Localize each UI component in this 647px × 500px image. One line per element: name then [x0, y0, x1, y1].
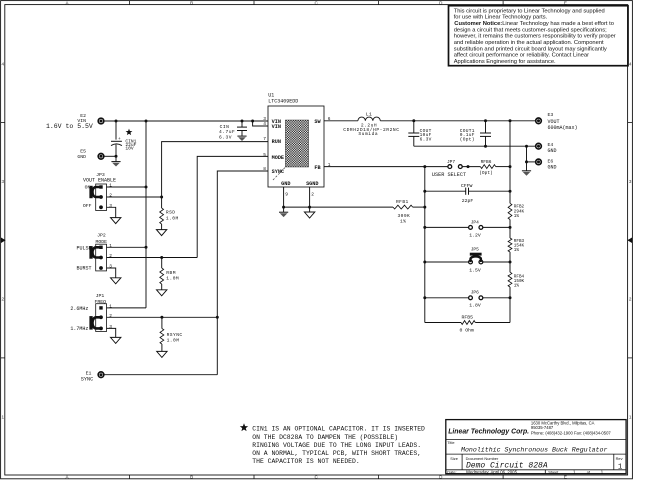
svg-text:MODE: MODE: [272, 155, 284, 161]
border row ticks: [1, 122, 5, 124]
node JP3 pin1 VIN: [145, 186, 148, 189]
wire SW pin6 to L1: [324, 120, 358, 122]
ground below pin2 SGND (signal): [309, 207, 311, 212]
svg-text:Size: Size: [450, 456, 458, 461]
wire FB pin1 to divider: [324, 166, 448, 168]
svg-text:Rev: Rev: [616, 456, 623, 461]
resistor RFB1 309K: [393, 205, 413, 209]
svg-text:E4: E4: [548, 142, 554, 148]
wire MODE pin5 to JP2 pin2: [197, 156, 268, 257]
svg-text:BURST: BURST: [76, 265, 91, 271]
svg-text:RINGING VOLTAGE DUE TO THE LON: RINGING VOLTAGE DUE TO THE LONG INPUT LE…: [252, 442, 421, 449]
svg-text:0 Ohm: 0 Ohm: [460, 328, 475, 334]
svg-text:3: 3: [109, 203, 112, 209]
resistor RFB5 0 Ohm: [425, 322, 461, 324]
svg-text:1: 1: [109, 243, 112, 249]
proprietary notice box: [449, 6, 629, 66]
node FB-left vertical: [423, 165, 426, 168]
svg-text:3: 3: [109, 324, 112, 330]
wire U1 pin2 SGND down: [309, 187, 311, 207]
wire E1 to SYNC vertical: [104, 374, 218, 376]
wire SYNC pin8 vertical: [217, 171, 268, 375]
svg-text:2: 2: [109, 193, 112, 199]
svg-text:for use with Linear Technology: for use with Linear Technology parts.: [454, 15, 548, 21]
node RSYNC top: [160, 316, 163, 319]
wire JP3 pin3 to ground: [107, 207, 116, 217]
svg-text:E: E: [564, 0, 567, 5]
ground below CIN (power): [237, 135, 246, 137]
node JP4 right: [509, 226, 512, 229]
ground below RBM (signal): [157, 290, 167, 296]
svg-text:1.6V to 5.5V: 1.6V to 5.5V: [46, 123, 93, 130]
svg-text:JP1: JP1: [96, 293, 105, 299]
node VOUT-COUT: [412, 119, 415, 122]
node E6 branch: [525, 145, 528, 148]
svg-text:1.5V: 1.5V: [469, 267, 481, 273]
wire to E6 terminal: [527, 161, 536, 163]
svg-text:3: 3: [263, 116, 266, 122]
svg-text:RSD: RSD: [166, 209, 176, 215]
svg-text:RBM: RBM: [166, 270, 176, 276]
terminal E2 VIN: [98, 118, 104, 124]
svg-text:RFB5: RFB5: [462, 314, 474, 320]
wire JP3 pin2 to RUN/RSD: [107, 196, 162, 198]
svg-text:GND: GND: [77, 154, 86, 160]
svg-text:3: 3: [109, 264, 112, 270]
node GND pin9: [282, 206, 285, 209]
title block frame: [446, 420, 626, 474]
svg-text:SYNC: SYNC: [81, 377, 93, 383]
svg-text:GND: GND: [281, 181, 290, 187]
svg-text:E3: E3: [548, 112, 554, 118]
svg-text:1: 1: [109, 183, 112, 189]
svg-text:Applications Engineering for a: Applications Engineering for assistance.: [454, 59, 556, 65]
svg-text:RFB6: RFB6: [481, 159, 492, 165]
jumper JP1 FREQ: [96, 304, 107, 332]
svg-text:E1: E1: [86, 370, 92, 376]
svg-text:(Opt): (Opt): [460, 137, 475, 143]
svg-text:VIN: VIN: [272, 124, 281, 130]
capacitor COUT1 0.1uF (Opt): [485, 121, 487, 133]
svg-text:USER SELECT: USER SELECT: [432, 172, 466, 178]
svg-text:RUN: RUN: [272, 139, 281, 145]
wire JP1 pin3 to ground: [107, 328, 116, 337]
svg-text:JP2: JP2: [97, 232, 106, 238]
wire divider right vertical top: [509, 121, 511, 204]
svg-text:JP4: JP4: [471, 219, 479, 225]
svg-text:JP7: JP7: [447, 159, 455, 165]
svg-text:VOUT: VOUT: [548, 119, 560, 125]
svg-text:6.3V: 6.3V: [420, 137, 432, 143]
svg-text:22pF: 22pF: [462, 198, 474, 204]
svg-text:PULSE: PULSE: [76, 245, 91, 251]
U1 exposed pad dashed lead: [273, 168, 286, 181]
svg-text:1: 1: [629, 415, 632, 420]
svg-text:1: 1: [2, 415, 5, 420]
svg-text:ON: ON: [85, 185, 91, 191]
svg-text:E5: E5: [80, 149, 86, 155]
wire VIN vertical to JP1 pin1: [145, 121, 147, 308]
svg-text:VOUT ENABLE: VOUT ENABLE: [83, 177, 116, 183]
wire VIN rail E2 to U1 pin3: [104, 120, 268, 122]
border column ticks: [128, 1, 130, 5]
svg-text:THE CAPACITOR IS NOT NEEDED.: THE CAPACITOR IS NOT NEEDED.: [252, 458, 359, 465]
svg-text:Document Number: Document Number: [466, 456, 499, 461]
svg-text:4: 4: [2, 61, 5, 66]
svg-text:B: B: [190, 475, 193, 480]
svg-text:SGND: SGND: [306, 181, 318, 187]
svg-text:2: 2: [629, 297, 632, 302]
ground below E6 (power): [526, 162, 528, 171]
ground below RSD (signal): [156, 230, 166, 236]
svg-text:SW: SW: [314, 119, 321, 125]
jumper JP3 VOUT ENABLE: [96, 184, 107, 211]
svg-text:1.8V: 1.8V: [469, 302, 481, 308]
node VIN-pin4 branch: [251, 120, 254, 123]
svg-text:B: B: [190, 0, 193, 5]
jumper JP6 1.8V: [425, 297, 469, 299]
terminal E4 GND: [536, 143, 542, 149]
svg-text:and reliable operation in the: and reliable operation in the actual app…: [454, 40, 604, 46]
terminal E6 GND: [536, 159, 542, 165]
svg-text:1.0M: 1.0M: [166, 215, 179, 221]
jumper JP2 MODE: [96, 244, 107, 271]
wire output ground rail: [414, 145, 536, 147]
svg-text:Date:: Date:: [447, 469, 456, 474]
op-amp U1 LTC3409EDD body: [268, 106, 324, 187]
node VIN-CIN: [241, 120, 244, 123]
ground below CIN1 (power): [115, 156, 117, 161]
jumper JP7 USER SELECT: [448, 165, 452, 169]
svg-text:E6: E6: [548, 158, 554, 164]
svg-text:Monolithic Synchronous Buck Re: Monolithic Synchronous Buck Regulator: [461, 446, 607, 453]
svg-text:ON A NORMAL, TYPICAL PCB, WITH: ON A NORMAL, TYPICAL PCB, WITH SHORT TRA…: [252, 450, 421, 457]
svg-text:10V: 10V: [125, 146, 134, 152]
jumper JP4 1.2V: [425, 226, 469, 228]
resistor RFB2 294K 1%: [508, 203, 512, 219]
node CFFW left: [423, 190, 426, 193]
node JP5 right: [509, 261, 512, 264]
svg-text:2.6MHz: 2.6MHz: [70, 306, 88, 312]
inductor L1 2.2uH: [358, 117, 380, 121]
svg-text:GND: GND: [548, 148, 557, 154]
node MODE-RBM: [160, 256, 163, 259]
svg-text:Phone: (408)432-1900 Fax: (408: Phone: (408)432-1900 Fax: (408)434-0507: [531, 430, 612, 435]
wire JP2 pin3 to ground: [107, 268, 116, 278]
wire E6 branch vertical: [526, 146, 528, 162]
wire JP1 pin2 to SYNC: [107, 316, 218, 318]
wire SGND rail to FB divider: [284, 206, 393, 208]
svg-text:RSYNC: RSYNC: [167, 332, 183, 338]
node JP6 right: [509, 296, 512, 299]
svg-text:Wednesday, April 06, 2005: Wednesday, April 06, 2005: [466, 469, 518, 474]
ground below pin9 (power): [283, 207, 285, 212]
svg-text:Linear Technology Corp.: Linear Technology Corp.: [448, 428, 529, 435]
jumper JP5 1.5V with shunt: [425, 261, 469, 263]
svg-text:L1: L1: [366, 111, 373, 117]
wire U1 pin9 GND down: [283, 187, 285, 207]
svg-text:6.3V: 6.3V: [219, 134, 232, 140]
svg-text:1: 1: [109, 304, 112, 310]
node CIN1-E5: [115, 155, 118, 158]
resistor RSYNC 1.0M: [161, 317, 163, 328]
star mark at CIN1: [126, 129, 133, 136]
node SGND pin2: [308, 206, 311, 209]
node JP7-RFB6: [467, 165, 470, 168]
svg-text:GND: GND: [548, 165, 557, 171]
svg-text:4: 4: [629, 61, 632, 66]
svg-text:(Opt): (Opt): [479, 170, 493, 176]
svg-text:CIN1 IS AN OPTIONAL CAPACITOR.: CIN1 IS AN OPTIONAL CAPACITOR. IT IS INS…: [252, 426, 425, 433]
svg-text:SYNC: SYNC: [272, 169, 284, 175]
svg-text:FB: FB: [314, 165, 320, 171]
wire RUN pin7 to JP3 pin2: [162, 142, 268, 197]
svg-text:4: 4: [263, 121, 266, 127]
svg-text:E: E: [564, 475, 567, 480]
svg-text:2: 2: [109, 313, 112, 319]
svg-text:9: 9: [285, 192, 288, 198]
node RFB1 joins FB vertical: [423, 206, 426, 209]
svg-text:affect circuit performance or: affect circuit performance or reliabilit…: [454, 53, 589, 59]
svg-text:600mA(max): 600mA(max): [548, 125, 578, 131]
capacitor CFFW 22pF: [425, 190, 466, 192]
node VIN-vertical: [145, 120, 148, 123]
node E6: [525, 160, 528, 163]
wire U1 pin4 branch: [253, 121, 268, 126]
terminal E5 GND: [98, 154, 104, 160]
svg-text:FREQ: FREQ: [95, 299, 107, 305]
svg-text:3: 3: [2, 179, 5, 184]
svg-text:JP5: JP5: [471, 246, 479, 252]
node RUN-RSD: [160, 196, 163, 199]
svg-text:substitution and printed circu: substitution and printed circuit board l…: [454, 46, 607, 52]
svg-text:4.7uF: 4.7uF: [219, 129, 235, 135]
svg-text:1%: 1%: [514, 283, 520, 288]
svg-text:2: 2: [311, 192, 314, 198]
svg-text:1.0M: 1.0M: [166, 276, 179, 282]
terminal E3 VOUT: [536, 118, 542, 124]
svg-text:Customer Notice:Linear Technol: Customer Notice:Linear Technology has ma…: [454, 21, 614, 27]
wire E5 to CIN1: [104, 155, 116, 157]
resistor RFB6 (Opt): [480, 165, 495, 169]
node VOUT-divider: [509, 119, 512, 122]
svg-text:CFFW: CFFW: [461, 183, 473, 189]
svg-text:1: 1: [618, 463, 623, 471]
svg-text:Title: Title: [447, 440, 454, 445]
node VOUT-COUT1: [484, 119, 487, 122]
svg-text:however, it remains the custom: however, it remains the customers respon…: [454, 34, 616, 40]
terminal E1 SYNC: [98, 372, 104, 378]
JP1 shunt on pins 2-3: [92, 317, 101, 328]
svg-text:LTC3409EDD: LTC3409EDD: [268, 98, 298, 104]
svg-text:OFF: OFF: [83, 203, 92, 209]
svg-text:Sheet: Sheet: [548, 469, 559, 474]
node CFFW right: [509, 190, 512, 193]
svg-text:+: +: [118, 137, 121, 142]
svg-text:This circuit is proprietary to: This circuit is proprietary to Linear Te…: [454, 8, 605, 14]
wire JP1 pin1 to VIN vertical: [107, 307, 147, 309]
node VIN-CIN1: [115, 120, 118, 123]
resistor RBM 1.0M: [161, 258, 163, 269]
border center arrows: [1, 237, 6, 243]
U1 exposed pad hatch: [285, 120, 308, 167]
resistor RFB4 150K 1%: [508, 272, 512, 287]
node JP2 pin1 VIN: [145, 246, 148, 249]
node JP4 left: [423, 226, 426, 229]
JP2 shunt on pins 1-2: [92, 247, 101, 257]
wire L1 to E3 VOUT: [380, 120, 536, 122]
svg-text:JP6: JP6: [471, 289, 479, 295]
node JP5 left: [423, 261, 426, 264]
svg-text:1.0M: 1.0M: [167, 338, 180, 344]
svg-text:CIN: CIN: [220, 124, 230, 130]
svg-text:RFB1: RFB1: [396, 199, 409, 205]
resistor RSD 1.0M: [161, 197, 163, 208]
svg-text:ON THE DC828A TO DAMPEN THE (: ON THE DC828A TO DAMPEN THE (POSSIBLE): [252, 434, 398, 441]
note star symbol: [240, 423, 248, 431]
wire FB left vertical: [424, 167, 426, 323]
svg-text:2: 2: [109, 253, 112, 259]
capacitor COUT 10uF 6.3V: [413, 121, 415, 133]
resistor RFB3 154K 1%: [508, 238, 512, 252]
node SYNC-JP1: [216, 316, 219, 319]
node RFB6-divider: [509, 165, 512, 168]
svg-text:1%: 1%: [514, 214, 520, 219]
wire JP2 pin2 to MODE: [107, 257, 198, 259]
svg-text:3: 3: [629, 179, 632, 184]
svg-text:design a circuit that meets cu: design a circuit that meets customer-sup…: [454, 27, 607, 33]
svg-text:1.2V: 1.2V: [469, 232, 481, 238]
JP3 shunt on pins 1-2: [92, 187, 101, 197]
svg-text:1%: 1%: [400, 218, 406, 224]
capacitor CIN 4.7uF 6.3V: [241, 121, 243, 127]
svg-text:1.7MHz: 1.7MHz: [70, 326, 88, 332]
svg-text:309K: 309K: [398, 213, 411, 219]
wire JP3 pin1 to VIN: [107, 186, 147, 188]
svg-text:5: 5: [263, 152, 266, 158]
node JP6 left: [423, 296, 426, 299]
svg-text:1%: 1%: [514, 248, 520, 253]
svg-text:2: 2: [2, 297, 5, 302]
wire JP2 pin1 to VIN: [107, 246, 147, 248]
node COUT1 bottom: [484, 145, 487, 148]
capacitor CIN1 22uF 10V (optional): [115, 121, 117, 140]
svg-text:Sumida: Sumida: [358, 131, 378, 137]
svg-text:MODE: MODE: [96, 239, 108, 245]
ground below RSYNC (signal): [157, 351, 167, 357]
